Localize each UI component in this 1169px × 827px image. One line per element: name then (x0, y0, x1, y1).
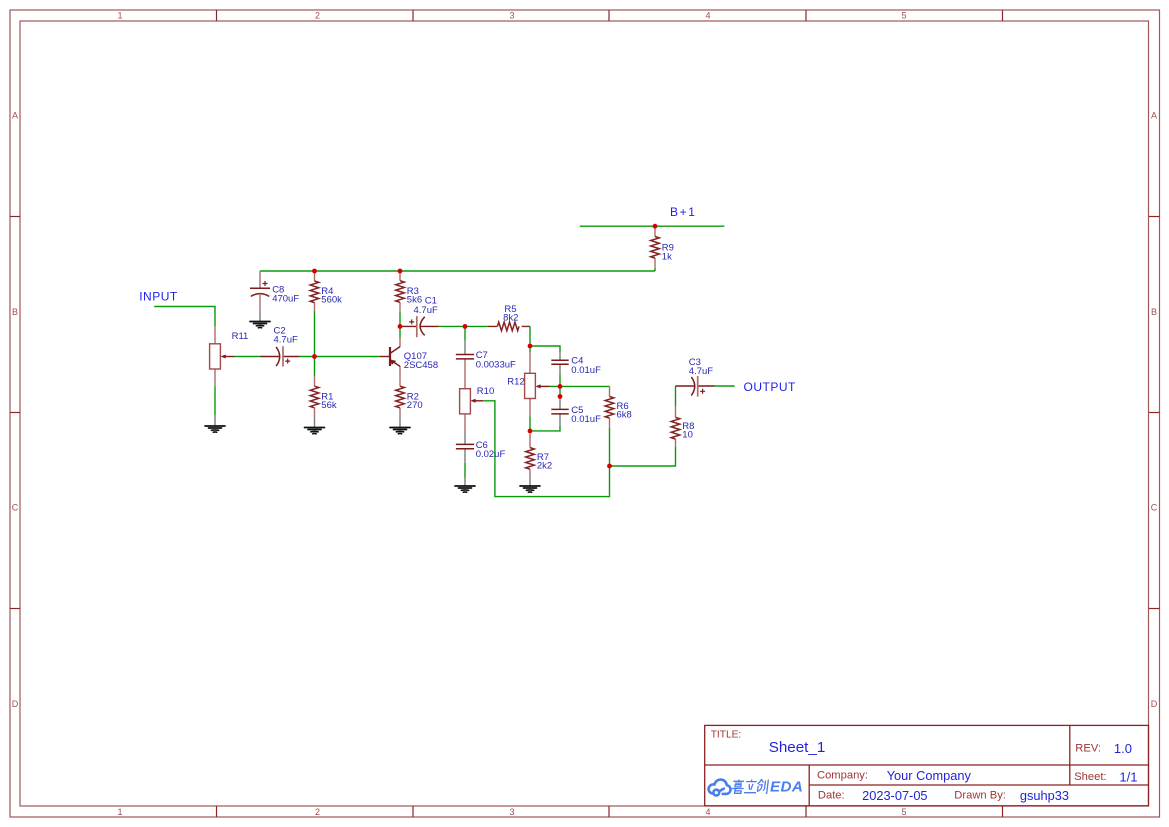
ground R2 (390, 428, 410, 434)
svg-text:4.7uF: 4.7uF (414, 305, 438, 316)
svg-text:Company:: Company: (817, 769, 868, 781)
gray pin C6 gnd (464, 478, 466, 487)
resistor R5 pins (488, 325, 530, 327)
svg-text:2023-07-05: 2023-07-05 (862, 788, 927, 803)
svg-text:1.0: 1.0 (1114, 741, 1132, 756)
svg-text:5k6: 5k6 (407, 294, 422, 305)
svg-text:D: D (12, 699, 19, 709)
glyph li (744, 780, 758, 793)
pin R1 bottom (314, 408, 316, 418)
gray pin stubs (215, 310, 560, 486)
svg-text:Your Company: Your Company (887, 768, 972, 783)
wire R12 wiper to node (550, 385, 561, 387)
pin R1 top (314, 376, 316, 386)
pin Q107 emitter (399, 367, 401, 377)
pin R2 bottom (399, 408, 401, 418)
resistor R8 (671, 417, 680, 439)
wire R6 bottom to lower node (609, 428, 611, 466)
svg-text:A: A (12, 111, 18, 121)
resistor R9 (651, 237, 660, 259)
svg-text:2: 2 (315, 11, 320, 21)
pin R4 bottom (314, 303, 316, 311)
wire R11 bottom to ground (214, 386, 216, 415)
svg-text:0.02uF: 0.02uF (476, 449, 506, 460)
svg-text:INPUT: INPUT (139, 290, 178, 304)
pin Q107 collector (399, 338, 401, 347)
node top rail R4 (312, 269, 317, 274)
pin C8 top (259, 271, 261, 288)
svg-text:Sheet:: Sheet: (1074, 771, 1106, 783)
pin C8 bottom (259, 296, 261, 310)
JLC EDA logo (709, 778, 804, 795)
svg-text:R12: R12 (507, 376, 524, 387)
pin R12 top (529, 352, 531, 373)
wire INPUT lead (154, 307, 215, 327)
ground R1 (305, 428, 325, 434)
svg-text:R11: R11 (232, 331, 249, 342)
node wiper R12 (558, 384, 563, 389)
pin R3 bottom (399, 302, 401, 312)
ground R11 (205, 426, 225, 432)
gray pin C4 top (559, 352, 561, 360)
svg-text:OUTPUT: OUTPUT (744, 380, 797, 394)
pin R4 top (314, 271, 316, 281)
svg-text:0.0033uF: 0.0033uF (476, 359, 516, 370)
pin R11 bottom (214, 369, 216, 386)
svg-text:1: 1 (117, 807, 122, 817)
svg-text:4.7uF: 4.7uF (274, 335, 298, 346)
wire lower node to R8 bottom (610, 446, 676, 466)
glyph chuang (757, 779, 769, 793)
svg-text:3: 3 (509, 807, 514, 817)
capacitor C8 (vertical polarized) (250, 281, 270, 296)
node R5/R12/C4 (528, 344, 533, 349)
wire R12 top node (529, 346, 531, 352)
wire C1 right to C7 node (439, 325, 465, 327)
transistor Q107 (380, 347, 400, 367)
capacitor C6 (456, 444, 474, 448)
pin R12 bottom (529, 399, 531, 417)
net labels (139, 205, 796, 394)
resistor R5 (497, 322, 519, 331)
svg-text:2SC458: 2SC458 (404, 360, 438, 371)
wire top rail (260, 270, 655, 272)
svg-text:1k: 1k (662, 252, 672, 263)
svg-text:B: B (1151, 307, 1157, 317)
pin R3 top (399, 271, 401, 281)
potentiometer R11 (210, 344, 235, 369)
junction dots (312, 224, 657, 469)
ground R7 (520, 486, 540, 492)
wire lower node down to bottom rail to R10 wiper (483, 401, 609, 497)
node R6 bottom (607, 464, 612, 469)
ground C6 (455, 486, 475, 492)
svg-text:1: 1 (117, 11, 122, 21)
node top rail R3 (398, 269, 403, 274)
svg-text:4: 4 (705, 11, 710, 21)
gray pin C8 gnd (259, 310, 261, 321)
potentiometer R10 (460, 389, 484, 414)
pin R8 bottom (675, 439, 677, 446)
gray pin C5 top (559, 398, 561, 409)
rose pin stubs (215, 226, 676, 475)
嘉立创 glyph strokes (hand drawn) (731, 779, 768, 793)
svg-text:2: 2 (315, 807, 320, 817)
svg-text:560k: 560k (321, 294, 342, 305)
capacitor C7 (456, 355, 474, 359)
gray pin R2 gnd (399, 417, 401, 427)
gray pin R1 gnd (314, 417, 316, 427)
gray pin R11 gnd (214, 415, 216, 426)
pin R6 bottom (609, 418, 611, 428)
gray pin C7 top (464, 341, 466, 355)
capacitor C4 (551, 360, 568, 364)
svg-text:4.7uF: 4.7uF (689, 366, 713, 377)
resistor R2 (396, 386, 405, 408)
svg-text:470uF: 470uF (272, 294, 299, 305)
svg-text:Drawn By:: Drawn By: (954, 790, 1006, 802)
glyph jia (731, 780, 744, 794)
wire C7 node down (464, 326, 466, 340)
gray pin C5 bottom (559, 414, 561, 425)
pin R8 top (675, 406, 677, 417)
capacitor C5 (551, 409, 568, 414)
title block (705, 725, 1149, 805)
svg-text:C: C (1151, 503, 1158, 513)
resistor R4 (310, 281, 319, 303)
wire C4 bottom to wiper node (559, 375, 561, 387)
ground C8 (250, 322, 270, 328)
svg-text:0.01uF: 0.01uF (571, 365, 601, 376)
node base row (312, 354, 317, 359)
pin R2 top (399, 376, 401, 386)
pin R7 bottom (529, 469, 531, 475)
resistor R6 (605, 397, 614, 419)
wire C5 bottom corner to R7 node (530, 426, 560, 431)
wire R9 bottom to top rail corner (654, 268, 656, 271)
svg-text:R10: R10 (477, 386, 494, 397)
wire R4 bottom to main node to R1 (314, 311, 316, 377)
svg-text:EDA: EDA (770, 778, 803, 795)
svg-text:B: B (12, 307, 18, 317)
wire wiper node to R6 top (560, 385, 610, 387)
wire R8 top to C3 corner (675, 386, 677, 406)
svg-text:56k: 56k (321, 400, 337, 411)
svg-text:C: C (12, 503, 19, 513)
svg-text:TITLE:: TITLE: (711, 729, 742, 740)
wire R12 bottom to R7 node (529, 416, 531, 431)
wire between stacked nodes (559, 386, 561, 396)
pin R9 top (654, 226, 656, 236)
svg-text:270: 270 (407, 400, 423, 411)
svg-text:1/1: 1/1 (1119, 770, 1137, 785)
svg-text:6k8: 6k8 (617, 410, 632, 421)
svg-text:Sheet_1: Sheet_1 (769, 739, 826, 756)
pin R11 top (214, 326, 216, 343)
gray pin C6 top (464, 429, 466, 444)
wire B+1 rail (580, 225, 725, 227)
wire C3 right to OUTPUT (715, 385, 735, 387)
wire R12 node to C4 branch (530, 346, 560, 352)
svg-text:5: 5 (901, 11, 906, 21)
svg-text:8k2: 8k2 (503, 312, 518, 323)
svg-text:REV:: REV: (1075, 743, 1101, 755)
svg-text:A: A (1151, 111, 1157, 121)
gray pin C6 bottom (464, 449, 466, 463)
svg-text:5: 5 (901, 807, 906, 817)
svg-text:10: 10 (682, 430, 693, 441)
svg-text:3: 3 (509, 11, 514, 21)
node collector/C1 (398, 324, 403, 329)
wire R11 wiper to C2 (234, 356, 260, 358)
component labels (232, 243, 714, 472)
wire C2 to Q107 base node (299, 356, 379, 358)
svg-text:gsuhp33: gsuhp33 (1020, 788, 1069, 803)
wire C7 node to R5 (465, 325, 488, 327)
capacitor C3 (horizontal polarized) (676, 376, 715, 397)
schematic (139, 205, 796, 497)
potentiometer R12 (525, 373, 550, 398)
wire R5 right corner down to R12 node (529, 326, 531, 346)
resistor R7 (526, 448, 535, 470)
gray pin C4 bottom (559, 365, 561, 375)
pin R9 bottom (654, 258, 656, 268)
resistor R3 (396, 281, 405, 303)
svg-text:Date:: Date: (818, 790, 845, 802)
wire R3 bottom to collector node (399, 312, 401, 338)
pin C7 bottom to R10 (464, 359, 466, 388)
capacitor C2 (horizontal polarized) (261, 346, 300, 366)
node C5 top (558, 394, 563, 399)
svg-text:4: 4 (705, 807, 710, 817)
capacitor C1 (horizontal polarized, mirrored) (400, 316, 439, 337)
green wires (154, 226, 735, 496)
node R12 bottom/C5/R7 (528, 429, 533, 434)
svg-text:2k2: 2k2 (537, 461, 552, 472)
pin R10 bottom (464, 414, 466, 429)
node C1/C7/R5 (463, 324, 468, 329)
resistor R1 (310, 386, 319, 408)
pin R6 top (609, 386, 611, 396)
svg-text:0.01uF: 0.01uF (571, 414, 601, 425)
wire C6 lower (464, 463, 466, 478)
node B+1/R9 (653, 224, 658, 229)
pin R7 top (529, 431, 531, 448)
svg-text:D: D (1151, 699, 1158, 709)
svg-text:B+1: B+1 (670, 205, 697, 219)
gray pin R7 gnd (529, 476, 531, 487)
